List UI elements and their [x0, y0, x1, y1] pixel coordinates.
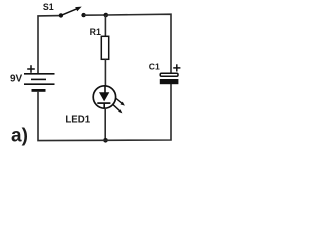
wire switch right contact to junction A [84, 14, 106, 16]
wire LED1 cathode to junction B [104, 108, 106, 140]
label a) figure letter [11, 125, 28, 146]
svg-text:LED1: LED1 [65, 115, 90, 126]
label 9V [10, 74, 23, 85]
resistor R1 [101, 36, 108, 59]
junction A (top of R1 branch) [104, 13, 109, 18]
switch S1 [59, 7, 86, 18]
capacitor C1 [160, 64, 181, 84]
svg-text:9V: 9V [10, 74, 23, 85]
label C1 [149, 61, 160, 71]
label S1 [43, 2, 54, 12]
label LED1 [65, 115, 90, 126]
label R1 [90, 27, 101, 37]
wire battery+ up and over to switch left contact [38, 16, 61, 74]
LED LED1 [93, 86, 125, 114]
battery 9V [24, 65, 55, 90]
wire R1 bottom to LED1 anode [104, 59, 106, 86]
junction B (bottom of LED branch) [103, 138, 108, 143]
wire battery- down to bottom-left corner and to junction B [38, 92, 106, 141]
wire junction A down to R1 top [104, 15, 106, 37]
svg-text:a): a) [11, 125, 28, 146]
wire junction A to top-right corner down to C1 [106, 14, 171, 73]
svg-text:C1: C1 [149, 61, 160, 71]
svg-text:S1: S1 [43, 2, 54, 12]
wire junction B to bottom-right corner up to C1 [106, 84, 172, 140]
svg-text:R1: R1 [90, 27, 101, 37]
